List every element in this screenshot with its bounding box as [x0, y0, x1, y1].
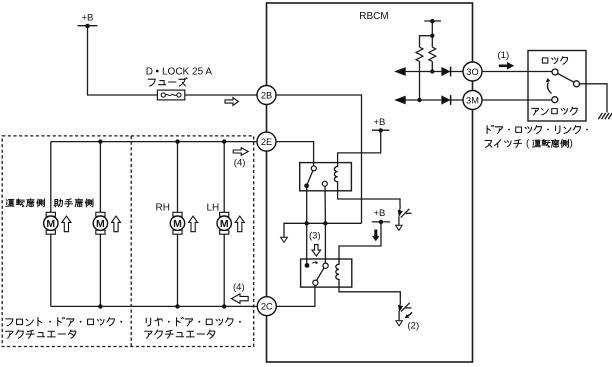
- wire D1 to 3O: [451, 71, 463, 73]
- wire rail to relay2 contact: [324, 223, 326, 263]
- wire D2 to 3M: [451, 99, 463, 101]
- junction dot rail/relay1 pivot: [305, 221, 309, 225]
- motor lead M1 driver side (lower): [50, 234, 52, 306]
- label unlock (katakana): [532, 108, 539, 115]
- wire rail to relay2 pivot: [306, 223, 308, 263]
- connector 2B: [257, 86, 276, 105]
- svg-text:M: M: [96, 218, 105, 230]
- power feed +B (relay2 coil): [372, 208, 390, 224]
- relay2 armature lever: [316, 267, 324, 281]
- actuator bottom bus wire: [51, 305, 257, 307]
- svg-text:(1): (1): [498, 50, 510, 61]
- caption rear door lock actuator line1: [146, 318, 150, 326]
- junction dot top bus x=224.2: [222, 139, 226, 143]
- svg-text:3M: 3M: [466, 95, 479, 105]
- power feed tick (resistors): [424, 19, 441, 23]
- connector 3M: [463, 91, 482, 110]
- flow arrow (4) left: [232, 294, 249, 304]
- diode D1: [441, 67, 450, 77]
- svg-text:(2): (2): [408, 321, 420, 332]
- svg-text:+B: +B: [374, 208, 386, 219]
- label lock (katakana): [542, 58, 548, 63]
- diode D2: [441, 95, 450, 105]
- relay1 armature pivot: [304, 183, 309, 188]
- wire +B to fuse: [88, 26, 158, 95]
- svg-text:+B: +B: [82, 13, 94, 24]
- svg-text:2B: 2B: [261, 90, 272, 100]
- svg-text:D: D: [146, 67, 153, 78]
- caption rear door lock actuator line2: [145, 331, 152, 338]
- actuator top bus wire: [51, 141, 257, 143]
- fuse label D LOCK 25 A: [146, 67, 213, 78]
- wire 3M to unlock contact: [482, 99, 551, 101]
- motor lead M3 RH (upper): [177, 142, 179, 213]
- caption front door lock actuator line1: [6, 319, 13, 326]
- svg-text:(4): (4): [233, 282, 245, 293]
- svg-text:+B: +B: [374, 117, 386, 128]
- relay2 armature pivot: [305, 263, 310, 268]
- connector 2C: [257, 297, 276, 316]
- wire R1 to 3M row: [419, 61, 421, 100]
- connector 2E: [257, 132, 276, 151]
- current-direction bold arrow (lock): [372, 230, 380, 242]
- switch lever: [558, 74, 574, 83]
- svg-text:RH: RH: [156, 203, 170, 214]
- svg-text:3O: 3O: [466, 67, 478, 77]
- wire 2C to relay2 common: [277, 285, 315, 306]
- battery feed +B top-left: [78, 13, 98, 29]
- relay2 coil L2: [336, 259, 339, 280]
- svg-text:RBCM: RBCM: [359, 11, 388, 22]
- label passenger side (kanji): [54, 199, 62, 207]
- door lock link switch box: [528, 51, 586, 122]
- wire 2B to relay supply drop: [276, 95, 362, 223]
- wire tick to resistors: [431, 21, 433, 47]
- wire 3M row: [405, 99, 442, 101]
- flow arrow (1): [499, 62, 514, 70]
- svg-text:M: M: [46, 218, 55, 230]
- relay1 fixed contact (from 2E): [311, 166, 316, 171]
- common contact: [574, 81, 580, 87]
- wire +B to relay2 coil: [339, 222, 381, 259]
- switch movement arrow: [548, 82, 552, 93]
- wire relay1 coil to continuation: [338, 182, 400, 208]
- direction arrow next to M3 RH: [189, 216, 198, 232]
- wire +B to relay1 coil: [338, 130, 381, 162]
- wire 3O to lock contact: [482, 71, 552, 73]
- flow arrow (into 2B): [225, 98, 238, 106]
- wire relay2 coil to continuation (2): [339, 279, 400, 302]
- actuator dashed enclosure: [2, 136, 254, 347]
- to-other-circuit arrow (3O row): [394, 67, 406, 76]
- relay2 fixed contact (top): [323, 263, 328, 268]
- to-other-circuit arrow (3M row): [394, 96, 406, 105]
- pointer arrow to (2): [407, 312, 412, 316]
- svg-text:LH: LH: [207, 203, 220, 214]
- svg-text:(: (: [526, 139, 530, 150]
- unlock relay RY2 box: [301, 259, 352, 287]
- label driver side (kanji): [6, 200, 14, 207]
- wire fuse to connector 2B: [185, 94, 257, 96]
- chassis ground: [598, 113, 612, 119]
- motor lead M2 passenger side (lower): [99, 234, 101, 306]
- svg-text:M: M: [220, 218, 229, 230]
- connector 3O: [463, 62, 482, 81]
- caption door lock link switch: [487, 125, 494, 133]
- motor lead M2 passenger side (upper): [99, 142, 101, 213]
- motor lead M4 LH (lower): [223, 234, 225, 306]
- wire 2E to relay1 contact: [276, 142, 314, 166]
- junction dot top bus x=177.5: [175, 139, 179, 143]
- wire R2 to 3O row: [431, 61, 433, 71]
- unlock contact: [552, 97, 558, 103]
- junction dot bottom bus x=177.5: [175, 304, 179, 308]
- wire 3O row: [405, 71, 442, 73]
- svg-text:2E: 2E: [261, 137, 272, 147]
- RBCM module box: [267, 3, 473, 362]
- motor lead M1 driver side (upper): [50, 142, 52, 213]
- junction dot top bus x=100.4: [98, 139, 102, 143]
- svg-text:M: M: [173, 218, 182, 230]
- flow arrow (4) right: [233, 148, 248, 156]
- relay supply rail: [284, 223, 362, 242]
- relay1 coil L1: [334, 163, 337, 183]
- motor M2 passenger side: [93, 212, 107, 234]
- flow arrow (3) down: [312, 245, 321, 257]
- svg-text:(4): (4): [234, 158, 246, 169]
- to-other-circuit open arrow (rail left end): [281, 237, 288, 242]
- relay2 common contact (bottom): [313, 280, 318, 285]
- motor M4 LH: [217, 212, 231, 234]
- relay1 second contact: [322, 181, 327, 186]
- svg-text:2C: 2C: [261, 302, 273, 312]
- fuse D·LOCK 25 A: [157, 90, 184, 100]
- resistor R1 (left): [416, 47, 423, 61]
- caption front door lock actuator line2: [6, 331, 13, 338]
- actuator dashed divider: [130, 136, 132, 347]
- relay1 armature lever: [307, 171, 313, 185]
- door-lock relay RY1 box: [300, 163, 352, 191]
- direction arrow next to M2 passenger side: [112, 216, 121, 232]
- fuse label fuse (katakana): [148, 79, 155, 86]
- svg-text:LOCK 25 A: LOCK 25 A: [162, 67, 212, 78]
- motor M1 driver side: [44, 212, 58, 234]
- wire common to ground: [580, 84, 608, 113]
- motor lead M4 LH (upper): [223, 142, 225, 213]
- direction arrow next to M4 LH: [235, 216, 244, 232]
- junction dot bottom bus x=224.2: [222, 304, 226, 308]
- svg-text:(3): (3): [309, 231, 321, 242]
- motor lead M3 RH (lower): [177, 234, 179, 306]
- wire relay1 pivot to rail: [306, 188, 308, 223]
- resistor R2 (right): [429, 47, 436, 61]
- svg-text:): ): [570, 139, 573, 150]
- power feed +B (relay1 coil): [372, 117, 390, 133]
- lock contact: [552, 69, 558, 75]
- junction dot rail/relay2 contact: [323, 221, 327, 225]
- wire relay1 contact to rail: [324, 186, 326, 223]
- relay2 movement arrow: [312, 262, 317, 263]
- direction arrow next to M1 driver side: [62, 216, 71, 232]
- motor M3 RH: [170, 212, 184, 234]
- junction dot bottom bus x=100.4: [98, 304, 102, 308]
- continuation symbol (half-arrow + joint slash): [396, 207, 412, 230]
- continuation symbol at (2): [396, 302, 412, 325]
